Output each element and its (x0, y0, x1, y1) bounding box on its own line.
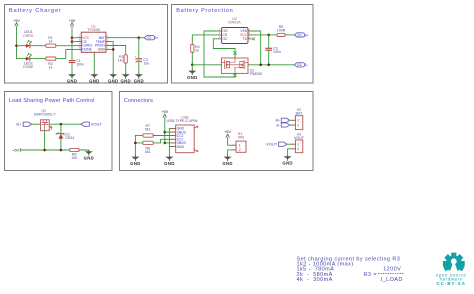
ground (H1) (222, 156, 232, 166)
node gate junction (43, 149, 46, 152)
wire R8 left (135, 142, 143, 144)
pin stubs U1 right (106, 38, 109, 50)
svg-text:FS8205: FS8205 (250, 72, 263, 76)
svg-text:OC: OC (223, 37, 229, 41)
connector USB TYPE-C 6PIN (167, 115, 198, 152)
node B- pack terminal pad (294, 63, 305, 67)
svg-text:1: 1 (297, 119, 299, 123)
wire LED1 to R1 (30, 45, 46, 47)
svg-text:2: 2 (297, 123, 299, 127)
wire PROG to R3 (109, 46, 126, 55)
wire CS to R4 (192, 35, 218, 45)
wire +5V down to C1 (71, 26, 73, 60)
node VCC/C3 junction (267, 34, 270, 37)
node R4/gnd junction (191, 64, 194, 67)
svg-text:GND: GND (177, 145, 185, 149)
wire H3 pin2 to gnd (288, 149, 293, 156)
node B+ flag to H2 (281, 118, 289, 122)
svg-text:R3 =: R3 = (364, 272, 377, 278)
wire BAT to B+ pad (109, 37, 145, 39)
LED LED1 CHRG (23, 30, 34, 48)
wire R2 to DONE pin (jog) (56, 49, 79, 58)
node B+ input flag (23, 122, 31, 126)
resistor R6 10k (70, 148, 79, 160)
pin stubs U1 left (79, 38, 82, 50)
node VBUS2 junction (164, 142, 167, 145)
pin stub U1 bottom pad (93, 52, 95, 54)
wire VCC to R5 (251, 34, 277, 36)
capacitor C1 100n (69, 59, 84, 67)
supply +5V (left, LED anodes) (13, 19, 20, 26)
node B+ pack terminal pad (294, 33, 305, 37)
node BAT/C2 junction (138, 36, 141, 39)
wire LED2 row (17, 58, 26, 60)
svg-text:B+: B+ (154, 36, 159, 40)
frame: Battery Charger section box (5, 5, 168, 84)
node B- flag to H2 (281, 123, 289, 127)
svg-text:4k - 300mA: 4k - 300mA (297, 277, 333, 283)
wire gate A vertical (234, 73, 236, 77)
wire to CE pin (72, 41, 79, 43)
wire R6 to gnd (79, 150, 89, 151)
diode D1 SS34 schottky (56, 133, 74, 141)
pin stubs U2 right (248, 31, 251, 39)
svg-text:1k2: 1k2 (118, 58, 124, 62)
pin numbers U2 left (219, 28, 221, 39)
wire usb gnd down (168, 147, 170, 157)
svg-text:10k: 10k (71, 156, 77, 160)
wire +5V row (20, 149, 69, 151)
supply +5V (VCC/CE) (69, 19, 76, 26)
wire junction to gnd (191, 65, 193, 71)
svg-text:+5V: +5V (12, 148, 19, 152)
g box3 content (12, 109, 102, 161)
wire LED2 to R2 (30, 58, 46, 60)
svg-text:DONE: DONE (82, 48, 92, 52)
wire to VBUS pin 1 (165, 131, 172, 133)
node VCC junction (71, 36, 74, 39)
wire Q2 drain to VOUT (49, 123, 81, 125)
wire VSS down to B- rail (251, 31, 261, 65)
node R7/R8 junction (134, 142, 137, 145)
svg-text:Load Sharing Power Path Contro: Load Sharing Power Path Control (9, 98, 95, 104)
resistor R3 1k2 (118, 55, 127, 63)
ground (USB) (164, 156, 174, 166)
svg-text:I_LOAD: I_LOAD (381, 277, 403, 283)
svg-text:SS34: SS34 (65, 136, 74, 140)
wire C2 to gnd (138, 62, 140, 75)
wire D1 vertical (60, 124, 62, 150)
wire B+ to H2 pin1 (290, 119, 293, 121)
node TEMP/GND junction (112, 48, 115, 51)
ground (R7/R8) (130, 156, 140, 166)
connector H1 VIN (233, 132, 246, 152)
wire R3 to gnd (125, 63, 127, 74)
wire B+ to Q2 source (32, 123, 41, 125)
wire Q1 to B- pad rail (248, 64, 294, 66)
IC U2 DW01A protection (222, 17, 249, 44)
svg-text:1k: 1k (195, 49, 199, 53)
svg-text:TP4056: TP4056 (87, 28, 100, 32)
pin numbers U1 left (79, 35, 81, 50)
svg-text:100R: 100R (277, 28, 286, 32)
ground (TEMP/GND) (108, 73, 118, 83)
g box4 content (130, 108, 305, 166)
svg-text:1: 1 (239, 144, 241, 148)
svg-text:Battery Protection: Battery Protection (176, 8, 233, 14)
pin numbers U2 right (249, 28, 251, 39)
svg-text:5k1: 5k1 (145, 128, 151, 132)
ground (C1) (67, 73, 77, 83)
resistor R4 1k (191, 45, 200, 53)
frame: Battery Protection section box (172, 5, 314, 84)
g box2 content (187, 17, 309, 80)
svg-text:Battery Charger: Battery Charger (9, 8, 62, 14)
ground (H3) (282, 155, 292, 165)
node D1 anode junction (60, 149, 63, 152)
logo open source hardware gear (436, 253, 467, 286)
connector H3 VOUT (292, 132, 304, 152)
svg-text:VOUT: VOUT (91, 122, 103, 127)
wire R7 to CC2 (153, 135, 172, 137)
frame: Connectors section box (120, 92, 314, 171)
wire to VBUS pin 2 (165, 142, 172, 144)
pin stubs U2 left (218, 31, 221, 39)
no-connect mark gate A (234, 74, 237, 77)
svg-text:2: 2 (297, 147, 299, 151)
node VOUT flag to H3 (279, 142, 287, 146)
wire usb gnd net (169, 129, 172, 147)
capacitor C3 100n (266, 47, 281, 55)
wire OC to gate B (213, 39, 235, 49)
svg-text:+: + (135, 55, 137, 59)
note text block R3 selection (297, 256, 403, 283)
ground (R3) (120, 73, 130, 83)
resistor R1 1k (46, 36, 56, 48)
frame: Load Sharing section box (5, 92, 113, 171)
svg-text:1: 1 (297, 143, 299, 147)
supply +5V (H1) (224, 130, 231, 137)
pin numbers U1 right (107, 35, 109, 50)
svg-text:CC-BY-SA: CC-BY-SA (436, 281, 466, 286)
svg-text:5k1: 5k1 (145, 150, 151, 154)
fraction line (378, 272, 404, 274)
wire LED1 row (17, 45, 26, 47)
svg-text:10u: 10u (143, 61, 149, 65)
pin stubs USB left (172, 129, 176, 147)
capacitor C2 10u polarized (135, 55, 150, 66)
connector H2 BAT (292, 108, 303, 130)
wire junction to Q1 source (192, 64, 221, 66)
svg-text:VOUT: VOUT (294, 136, 305, 140)
resistor R7 5k1 (143, 124, 153, 137)
wire R7/R8 common to gnd (134, 136, 136, 157)
ground (battery minus) (187, 70, 197, 80)
node D1 cathode junction (60, 123, 63, 126)
no-connect mark gate B (234, 52, 237, 55)
ground (U1 pad) (89, 73, 99, 83)
resistor R5 100R (277, 25, 286, 37)
wire R7 left (135, 135, 143, 137)
op-amp U1 TP4056 charger IC (81, 24, 106, 52)
supply +5V (USB VBUS) (161, 110, 168, 117)
ground (R6) (84, 150, 94, 160)
wire to VCC pin (72, 37, 79, 39)
g box1 content (13, 19, 159, 84)
transistor Q2 DMP1045U-7 pmos (34, 109, 56, 131)
svg-text:CHRG: CHRG (23, 34, 34, 38)
wire +5V down to LED rows (16, 26, 18, 58)
wire R8 to CC1 jog (153, 139, 172, 143)
svg-text:TD: TD (243, 37, 248, 41)
wire U1 pad to gnd (93, 55, 95, 75)
wire C1 to gnd (71, 63, 73, 75)
svg-text:VIN: VIN (238, 136, 244, 140)
wire OD to gate A (204, 31, 235, 77)
ground (C2) (134, 73, 144, 83)
svg-text:B+: B+ (16, 122, 22, 127)
wire Q2 gate down (44, 131, 46, 150)
wire C3 top (268, 35, 270, 48)
node LED1 anode junction (15, 44, 18, 47)
wire TEMP down (109, 42, 114, 50)
wire B- to H2 pin2 (290, 124, 293, 126)
svg-text:2: 2 (239, 148, 241, 152)
svg-text:VOUT: VOUT (266, 142, 278, 147)
resistor R8 5k1 (143, 141, 153, 154)
wire VOUT to H3 pin1 (287, 143, 293, 145)
pin shield marks USB right (194, 126, 198, 151)
svg-text:BAT: BAT (296, 112, 304, 116)
svg-text:DW01A: DW01A (228, 20, 241, 24)
LED LED2 DONE (23, 53, 34, 69)
wire R1 to CHRG pin (56, 45, 79, 47)
svg-text:1200V: 1200V (383, 267, 401, 273)
wire C3 bottom (268, 50, 270, 65)
svg-text:1k: 1k (49, 66, 53, 70)
node B+ battery terminal pad (144, 36, 155, 40)
node C3/B- junction (267, 64, 270, 67)
wire B+ down to C2 (138, 38, 140, 59)
wire H1 pin2 to gnd (228, 150, 233, 157)
wire gate B vertical (234, 49, 236, 59)
resistor R2 1k (46, 57, 56, 70)
wire R5 to B+ pad (285, 34, 294, 36)
node CE junction (71, 40, 74, 43)
no-connect mark TD pin (252, 38, 255, 40)
wire +5V to H1 pin1 (228, 138, 233, 146)
wire R4 to B- rail (191, 52, 193, 65)
svg-text:Connectors: Connectors (124, 98, 153, 104)
svg-text:DMP1045U-7: DMP1045U-7 (34, 113, 56, 117)
svg-text:DONE: DONE (23, 65, 34, 69)
svg-text:USB-TYPE-C-6PIN: USB-TYPE-C-6PIN (167, 119, 198, 123)
svg-text:100n: 100n (273, 50, 281, 54)
transistor Q1 FS8205 dual mosfet (221, 58, 248, 73)
node VSS junction (259, 64, 262, 67)
svg-text:1k: 1k (49, 39, 53, 43)
svg-text:B+: B+ (276, 119, 280, 123)
svg-text:B+: B+ (304, 33, 309, 37)
wire +5V to VBUS pins (164, 118, 166, 143)
node VBUS1 junction (164, 131, 167, 134)
wire GND pin to gnd (109, 49, 114, 74)
svg-text:100n: 100n (76, 63, 84, 67)
node VOUT output flag (81, 122, 89, 126)
svg-text:GND: GND (98, 48, 106, 52)
